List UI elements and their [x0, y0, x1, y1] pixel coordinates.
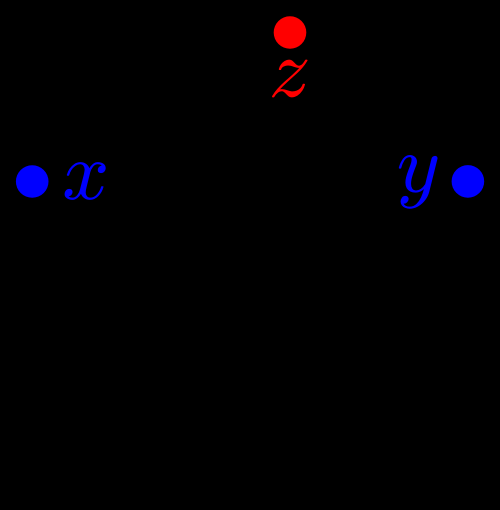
node x (blue point)	[16, 165, 49, 198]
node z (red point)	[274, 16, 307, 49]
label x	[65, 162, 106, 200]
label y	[399, 155, 438, 209]
label z	[272, 60, 307, 98]
node y (blue point)	[452, 165, 485, 198]
